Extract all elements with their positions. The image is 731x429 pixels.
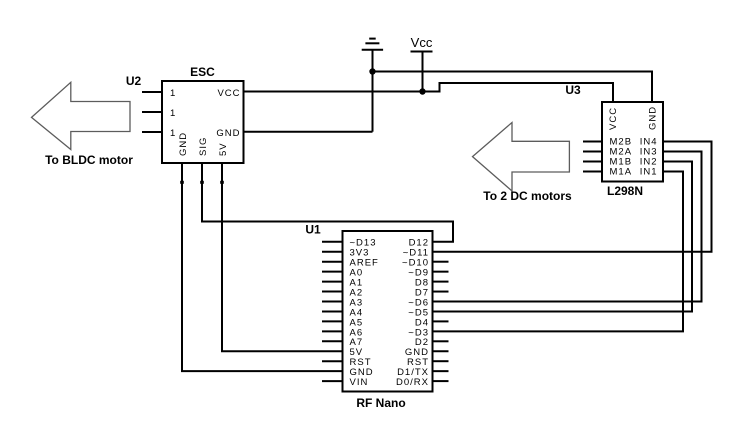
svg-text:GND: GND <box>216 128 240 139</box>
svg-text:D0/RX: D0/RX <box>396 377 429 388</box>
svg-text:5V: 5V <box>218 142 229 156</box>
svg-text:IN1: IN1 <box>640 167 658 178</box>
svg-text:Vcc: Vcc <box>411 35 433 50</box>
svg-text:GND: GND <box>648 106 659 130</box>
svg-text:To 2 DC motors: To 2 DC motors <box>483 189 572 203</box>
svg-text:M1A: M1A <box>610 167 633 178</box>
svg-text:VCC: VCC <box>608 107 619 130</box>
svg-text:RF Nano: RF Nano <box>356 396 405 410</box>
svg-text:U1: U1 <box>305 223 321 237</box>
svg-text:1: 1 <box>170 88 176 99</box>
svg-text:U3: U3 <box>565 83 581 97</box>
svg-text:ESC: ESC <box>190 65 215 79</box>
svg-text:L298N: L298N <box>607 184 643 198</box>
svg-text:U2: U2 <box>126 74 142 88</box>
svg-text:VIN: VIN <box>350 377 369 388</box>
svg-text:VCC: VCC <box>217 88 240 99</box>
svg-text:SIG: SIG <box>198 137 209 156</box>
svg-text:To BLDC motor: To BLDC motor <box>45 153 133 167</box>
svg-text:GND: GND <box>178 132 189 156</box>
svg-text:1: 1 <box>170 108 176 119</box>
svg-text:1: 1 <box>170 128 176 139</box>
